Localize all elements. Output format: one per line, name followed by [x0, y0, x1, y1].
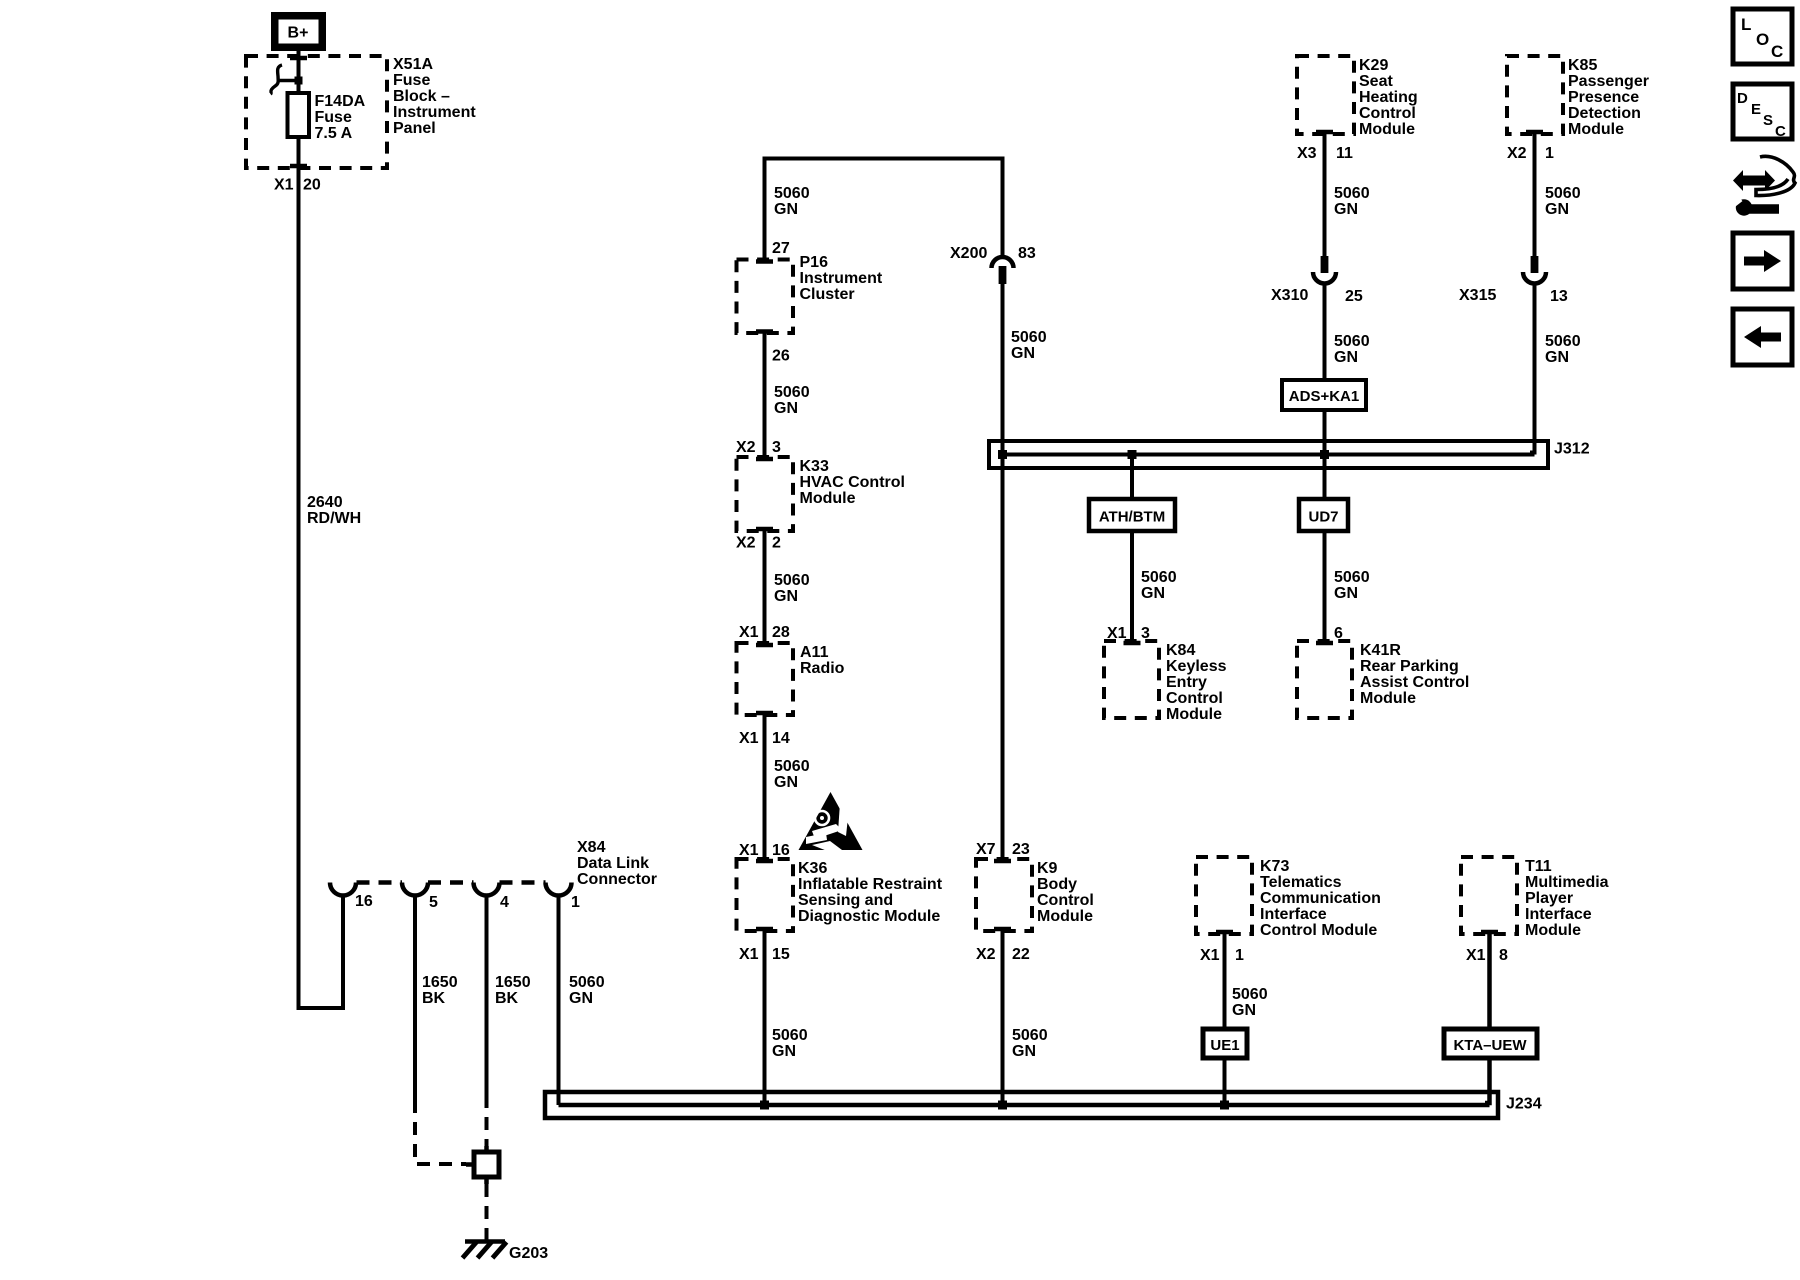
wire ADS+KA1 to UD7 through J312 [1323, 410, 1327, 501]
svg-text:KTA–UEW: KTA–UEW [1453, 1037, 1527, 1054]
svg-text:23: 23 [1012, 841, 1030, 858]
svg-text:X1: X1 [739, 842, 759, 859]
svg-text:X200: X200 [950, 245, 987, 262]
svg-text:16: 16 [355, 893, 373, 910]
wire serial data top run [765, 157, 1003, 161]
svg-text:26: 26 [772, 348, 790, 365]
icon back arrow box [1733, 309, 1792, 365]
rear parking assist K41R dashed box [1297, 641, 1352, 718]
svg-text:1: 1 [1235, 947, 1244, 964]
svg-text:13: 13 [1550, 288, 1568, 305]
svg-text:L: L [1741, 15, 1751, 34]
svg-text:UD7: UD7 [1308, 509, 1338, 526]
wire K33 to A11 [763, 531, 767, 645]
junction dot clip [295, 77, 303, 85]
svg-text:X1: X1 [1466, 947, 1486, 964]
body control module K9 dashed box [976, 859, 1032, 931]
svg-text:ATH/BTM: ATH/BTM [1099, 509, 1165, 526]
wire K36 to J234 [763, 931, 767, 1105]
wire KTA-UEW to J234 right end [1485, 1058, 1490, 1103]
wire K85 to X315 [1533, 134, 1537, 258]
svg-text:C: C [1775, 123, 1786, 140]
inline connector X315 [1531, 256, 1539, 273]
wire DLC pin 4 drop [485, 895, 489, 1095]
svg-text:X315: X315 [1459, 287, 1496, 304]
svg-text:28: 28 [772, 624, 790, 641]
svg-text:UE1: UE1 [1210, 1037, 1239, 1054]
tick K36 top [756, 859, 773, 864]
wire B+ to fuse [297, 51, 301, 95]
tick X51A bottom [290, 164, 307, 169]
tick K9 top [994, 859, 1011, 864]
tick K84 top [1124, 641, 1141, 646]
svg-text:X2: X2 [1507, 145, 1527, 162]
svg-text:O: O [1756, 30, 1769, 49]
svg-text:X2: X2 [976, 946, 996, 963]
wire 2640 RD/WH to DLC pin 16 [299, 168, 344, 1008]
telematics K73 dashed box [1196, 857, 1252, 934]
wire A11 to K36 [763, 715, 767, 861]
svg-text:J312: J312 [1554, 441, 1590, 458]
tick K33 bottom [756, 527, 773, 532]
tick K36 bottom [756, 927, 773, 932]
icon arrows and wrench [1733, 170, 1775, 191]
svg-text:X2: X2 [736, 535, 756, 552]
svg-text:X7: X7 [976, 841, 996, 858]
wire fuse to X1 pin 20 [297, 137, 301, 170]
wire K9 to J234 [1001, 931, 1005, 1105]
DLC cavity pin 1 [546, 883, 572, 896]
svg-text:X310: X310 [1271, 287, 1308, 304]
tick P16 bottom [756, 329, 773, 334]
J234 junction dot UE1 [1220, 1101, 1229, 1110]
svg-text:11: 11 [1336, 145, 1353, 162]
tick K33 top [756, 457, 773, 462]
wire X310 to ADS+KA1 [1323, 284, 1327, 383]
wire P16 to K33 [763, 333, 767, 459]
power feed B+ symbol [271, 12, 326, 51]
DLC dashed bus wire [357, 880, 403, 885]
svg-text:83: 83 [1018, 245, 1036, 262]
multimedia player T11 dashed box [1461, 857, 1517, 934]
svg-text:X1: X1 [274, 177, 294, 194]
fuse F14DA symbol [288, 93, 310, 137]
seat heating control module K29 dashed box [1297, 56, 1354, 134]
clip tap line [277, 79, 299, 82]
svg-text:8: 8 [1499, 947, 1508, 964]
J234 junction dot K36 [760, 1101, 769, 1110]
inline connector X200 [992, 257, 1014, 268]
fuse block X51A dashed box [246, 56, 387, 168]
airbag warning triangle [799, 792, 863, 850]
tick T11 bottom [1481, 930, 1498, 935]
svg-text:E: E [1751, 101, 1761, 118]
wire T11 to KTA-UEW [1487, 934, 1492, 1031]
svg-text:X1: X1 [739, 624, 759, 641]
svg-text:X2: X2 [736, 439, 756, 456]
wire K73 to UE1 [1223, 934, 1227, 1031]
net label box ATH/BTM [1089, 499, 1175, 531]
svg-text:S: S [1763, 112, 1773, 129]
svg-text:14: 14 [772, 730, 790, 747]
inline connector X310 [1321, 256, 1329, 273]
net label box UE1 [1203, 1029, 1247, 1058]
HVAC control module K33 dashed box [737, 457, 794, 531]
wire J312 to ATH/BTM [1130, 455, 1134, 502]
svg-text:1: 1 [571, 894, 580, 911]
icon forward arrow box [1733, 233, 1792, 289]
svg-text:16: 16 [772, 842, 790, 859]
icon LOC box [1733, 9, 1792, 64]
svg-text:D: D [1737, 90, 1748, 107]
wire pin 5 dashed to splice [415, 1100, 466, 1164]
wire ATH/BTM to K84 [1130, 531, 1134, 643]
net label box ADS+KA1 [1282, 380, 1366, 410]
svg-text:4: 4 [500, 894, 509, 911]
splice pack J312 [989, 441, 1548, 468]
net label box KTA-UEW [1444, 1029, 1537, 1058]
SDM K36 dashed box [737, 859, 794, 931]
J312 junction dot left [998, 450, 1007, 459]
svg-text:22: 22 [1012, 946, 1030, 963]
svg-text:J234: J234 [1506, 1096, 1542, 1113]
tick K85 bottom [1526, 130, 1543, 135]
wire drop to P16 [763, 157, 767, 262]
svg-text:2: 2 [772, 535, 781, 552]
icon DESC box [1733, 84, 1792, 139]
instrument cluster P16 dashed box [737, 260, 794, 334]
DLC cavity pin 16 [330, 883, 356, 896]
wire DLC pin 5 drop [413, 895, 417, 1100]
wire K29 to X310 [1323, 134, 1327, 258]
DLC cavity pin 4 [474, 883, 500, 896]
net label box UD7 [1299, 499, 1348, 531]
tick K41R top [1316, 641, 1333, 646]
wire splice to ground [485, 1184, 489, 1240]
radio A11 dashed box [737, 643, 794, 715]
J234 junction dot K9 [998, 1101, 1007, 1110]
tick A11 bottom [756, 711, 773, 716]
svg-text:27: 27 [772, 240, 790, 257]
svg-text:1: 1 [1545, 145, 1554, 162]
svg-text:B+: B+ [288, 25, 309, 42]
svg-text:3: 3 [772, 439, 781, 456]
svg-text:ADS+KA1: ADS+KA1 [1289, 388, 1359, 405]
svg-text:X1: X1 [739, 946, 759, 963]
svg-text:C: C [1771, 42, 1783, 61]
svg-text:20: 20 [303, 177, 321, 194]
tick A11 top [756, 643, 773, 648]
tick K29 bottom [1316, 130, 1333, 135]
wire UE1 to J234 [1223, 1058, 1227, 1105]
wire pin 4 dashed to splice [485, 1095, 489, 1150]
passenger presence K85 dashed box [1507, 56, 1563, 134]
tick P16 top [756, 259, 773, 264]
splice pack J234 [545, 1092, 1498, 1118]
svg-text:X1: X1 [1200, 947, 1220, 964]
svg-text:5: 5 [429, 894, 438, 911]
J312 junction dot right [1320, 450, 1329, 459]
fuse clip latch [271, 65, 283, 94]
tick K9 bottom [994, 927, 1011, 932]
J312 junction dot mid [1128, 450, 1137, 459]
wire X315 to J312 right end [1530, 284, 1535, 453]
keyless entry K84 dashed box [1104, 641, 1159, 718]
wire DLC pin 1 to J234 [557, 895, 561, 1105]
svg-text:G203: G203 [509, 1245, 548, 1262]
svg-text:X1: X1 [739, 730, 759, 747]
tick K73 bottom [1216, 930, 1233, 935]
wire UD7 to K41R [1323, 531, 1327, 643]
svg-text:15: 15 [772, 946, 790, 963]
svg-text:25: 25 [1345, 288, 1363, 305]
ground symbol G203 [465, 1239, 505, 1244]
tick X51A top [290, 56, 307, 61]
wire X200 to K9 through J312 [1001, 284, 1005, 861]
wire top run to X200 [1001, 157, 1005, 259]
svg-text:X3: X3 [1297, 145, 1317, 162]
DLC cavity pin 5 [402, 883, 428, 896]
splice junction box [474, 1152, 499, 1177]
